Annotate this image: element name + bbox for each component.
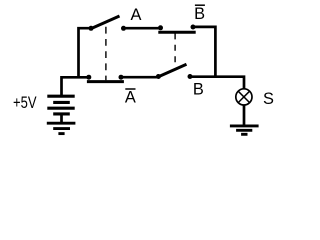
svg-text:B: B: [193, 81, 204, 99]
svg-text:A: A: [125, 89, 136, 107]
svg-text:S: S: [263, 90, 274, 108]
svg-text:A: A: [131, 6, 142, 24]
svg-text:B: B: [194, 5, 205, 23]
svg-text:+5V: +5V: [13, 94, 37, 112]
